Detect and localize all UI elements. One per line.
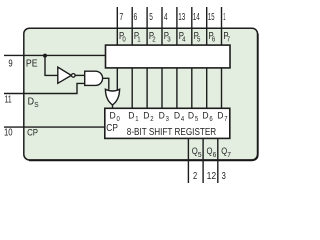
pin number 6: [134, 12, 138, 23]
svg-text:2: 2: [150, 116, 153, 123]
svg-text:5: 5: [198, 150, 202, 159]
wire D1 feed: [131, 68, 133, 108]
wire D5 feed: [191, 68, 193, 108]
svg-text:9: 9: [8, 59, 12, 70]
svg-text:10: 10: [4, 128, 13, 139]
label D1: [128, 110, 138, 123]
svg-text:D: D: [110, 110, 117, 120]
svg-text:1: 1: [223, 12, 225, 23]
IC body (green package outline): [24, 28, 258, 160]
pin 6 stub (P1): [131, 7, 133, 45]
svg-text:0: 0: [117, 116, 120, 123]
label 8-BIT SHIFT REGISTER: [127, 127, 216, 138]
label P6: [209, 31, 216, 44]
pin number 11: [5, 95, 12, 106]
svg-text:7: 7: [224, 116, 227, 123]
wire Q7 output: [217, 138, 219, 183]
label PE: [26, 59, 38, 70]
pin number 7: [119, 12, 123, 23]
label D7: [217, 110, 227, 123]
OR gate: [105, 89, 119, 105]
svg-text:2: 2: [152, 35, 155, 44]
svg-text:CP: CP: [27, 128, 38, 139]
svg-text:5: 5: [149, 12, 153, 23]
svg-text:D: D: [128, 110, 135, 120]
pin number 14: [193, 12, 200, 23]
svg-text:Q: Q: [207, 146, 213, 157]
svg-text:2: 2: [193, 171, 197, 182]
svg-text:7: 7: [227, 35, 230, 44]
wire AND output to OR gate: [103, 78, 109, 90]
wire CP (pin 10): [4, 126, 105, 128]
svg-text:3: 3: [166, 116, 169, 123]
label D2: [143, 110, 153, 123]
svg-text:D: D: [159, 110, 166, 120]
label P2: [149, 31, 156, 44]
pin 13 stub (P4): [176, 7, 178, 45]
label D3: [159, 110, 169, 123]
svg-text:5: 5: [195, 116, 198, 123]
label P1: [134, 31, 141, 44]
svg-text:S: S: [34, 100, 38, 109]
svg-text:6: 6: [209, 116, 212, 123]
pin 1 stub (P7): [221, 7, 223, 45]
label Q6: [207, 146, 217, 159]
wire P0 feed to OR gate: [116, 68, 118, 91]
pin 7 stub (P0): [116, 7, 118, 45]
svg-text:Q: Q: [192, 146, 198, 157]
pin 15 stub (P6): [206, 7, 208, 45]
svg-text:3: 3: [167, 35, 170, 44]
label Q5: [192, 146, 202, 159]
pin number 3: [222, 171, 226, 182]
pin 5 stub (P2): [146, 7, 148, 45]
label P3: [164, 31, 171, 44]
label D0: [110, 110, 120, 123]
label D5: [188, 110, 198, 123]
svg-text:15: 15: [208, 12, 215, 23]
svg-text:4: 4: [164, 12, 168, 23]
wire D2 feed: [146, 68, 148, 108]
svg-text:3: 3: [222, 171, 226, 182]
pin number 13: [178, 12, 185, 23]
svg-text:7: 7: [227, 150, 231, 159]
pin number 2: [193, 171, 197, 182]
svg-text:7: 7: [119, 12, 123, 23]
label D6: [202, 110, 212, 123]
svg-text:6: 6: [213, 150, 217, 159]
svg-text:D: D: [202, 110, 209, 120]
label CP (outside register): [27, 128, 38, 139]
svg-text:6: 6: [212, 35, 215, 44]
label P0: [119, 31, 126, 44]
pin number 10: [4, 128, 13, 139]
svg-text:D: D: [174, 110, 181, 120]
wire DS (pin 11): [4, 83, 85, 93]
pin 4 stub (P3): [161, 7, 163, 45]
svg-text:6: 6: [134, 12, 138, 23]
wire D4 feed: [176, 68, 178, 108]
label D4: [174, 110, 184, 123]
parallel input stage box: [106, 45, 231, 68]
svg-text:5: 5: [197, 35, 200, 44]
svg-text:4: 4: [182, 35, 185, 44]
wire D6 feed: [206, 68, 208, 108]
svg-text:1: 1: [135, 116, 138, 123]
pin 14 stub (P5): [191, 7, 193, 45]
label DS: [28, 96, 39, 109]
svg-text:11: 11: [5, 95, 12, 106]
label P7: [223, 31, 230, 44]
wire OR output to D0: [112, 105, 114, 108]
svg-text:12: 12: [207, 171, 217, 182]
label P4: [179, 31, 186, 44]
pin number 12: [207, 171, 217, 182]
wire PE to inverter: [45, 55, 58, 75]
svg-text:D: D: [217, 110, 224, 120]
wire inverter to AND gate: [75, 74, 85, 76]
label CP (register pin): [106, 123, 118, 134]
wire Q5 output: [187, 138, 189, 183]
pin number 4: [164, 12, 168, 23]
svg-text:0: 0: [122, 35, 125, 44]
svg-text:D: D: [28, 96, 34, 107]
svg-text:D: D: [188, 110, 195, 120]
AND gate: [85, 71, 103, 85]
pin number 15: [208, 12, 215, 23]
pin number 1: [223, 12, 225, 23]
wire Q6 output: [202, 138, 204, 183]
svg-text:CP: CP: [106, 123, 118, 134]
svg-text:1: 1: [137, 35, 140, 44]
wire PE (pin 9): [4, 54, 106, 56]
svg-text:Q: Q: [221, 146, 227, 157]
svg-text:13: 13: [178, 12, 185, 23]
wire D3 feed: [161, 68, 163, 108]
svg-text:D: D: [143, 110, 150, 120]
inverter: [58, 67, 75, 83]
8-bit shift register box: [105, 108, 230, 138]
svg-text:4: 4: [181, 116, 184, 123]
wire D7 feed: [221, 68, 223, 108]
pin number 5: [149, 12, 153, 23]
pin number 9: [8, 59, 12, 70]
label Q7: [221, 146, 231, 159]
svg-text:8-BIT SHIFT REGISTER: 8-BIT SHIFT REGISTER: [127, 127, 216, 138]
svg-text:PE: PE: [26, 59, 38, 70]
svg-text:14: 14: [193, 12, 200, 23]
node PE junction: [43, 54, 47, 58]
label P5: [194, 31, 201, 44]
